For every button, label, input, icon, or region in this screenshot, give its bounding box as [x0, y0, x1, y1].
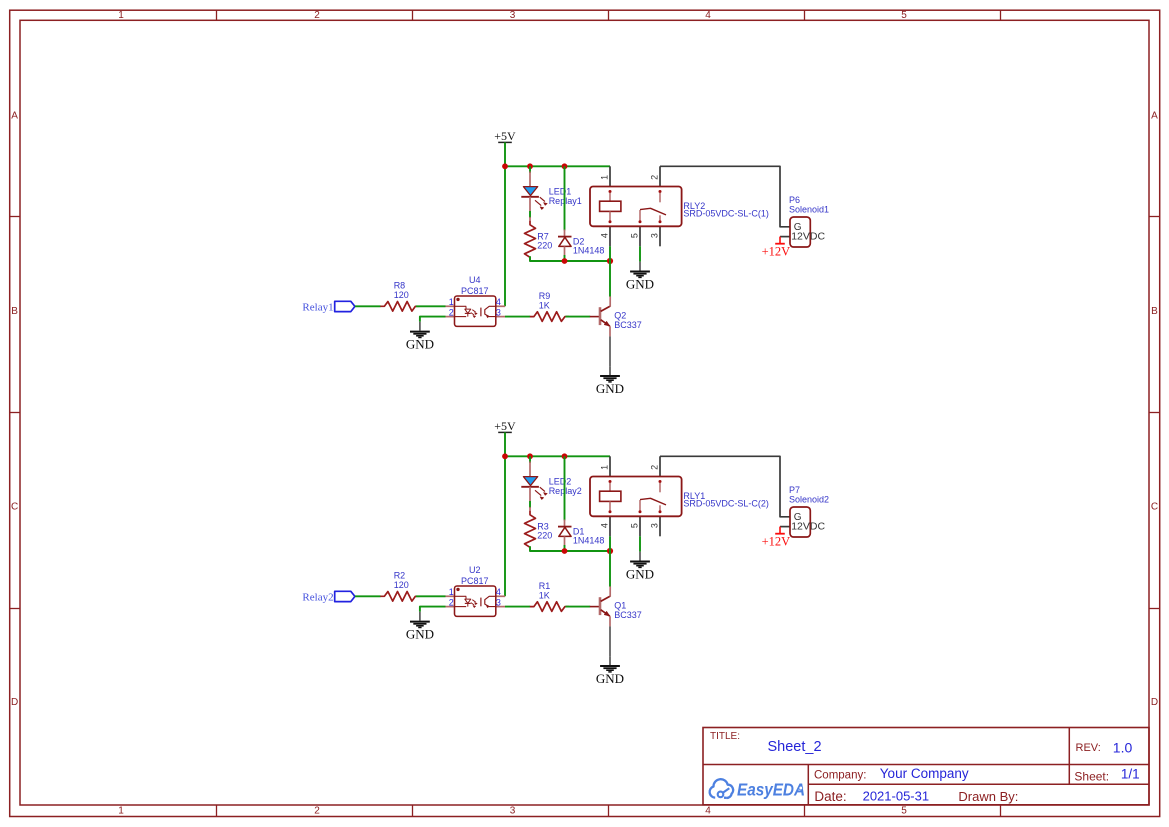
svg-text:1/1: 1/1 [1121, 766, 1140, 781]
optocoupler U2 PC817 [446, 595, 455, 597]
optocoupler internal led [455, 305, 467, 307]
svg-text:12VDC: 12VDC [791, 231, 825, 243]
easyeda logo cloud [710, 779, 733, 798]
svg-text:4: 4 [705, 806, 711, 817]
column ruler ticks bottom [216, 805, 218, 817]
wire optocoupler pin2 to ground [420, 317, 446, 322]
svg-text:1N4148: 1N4148 [573, 535, 605, 545]
svg-text:U4: U4 [469, 275, 481, 285]
svg-text:+5V: +5V [494, 419, 516, 433]
svg-text:1N4148: 1N4148 [573, 245, 605, 255]
svg-text:P7: P7 [789, 485, 800, 495]
svg-text:Relay2: Relay2 [302, 592, 333, 604]
wire diode anode to sub-rail [564, 255, 566, 261]
svg-text:SRD-05VDC-SL-C(1): SRD-05VDC-SL-C(1) [683, 209, 769, 219]
led LED1 [529, 172, 531, 187]
wire relay pin4 to sub-rail [609, 246, 611, 261]
connector P6 Solenoid1 [780, 236, 790, 238]
relay RLY2 body [590, 187, 682, 227]
svg-text:5: 5 [901, 806, 907, 817]
easyeda logo registered mark [799, 786, 803, 790]
svg-text:220: 220 [537, 241, 552, 251]
row ruler ticks left [10, 216, 20, 218]
svg-text:2: 2 [314, 10, 320, 21]
svg-text:1: 1 [449, 297, 454, 307]
svg-text:1K: 1K [539, 591, 550, 601]
ground under optocoupler pin2 [419, 612, 421, 621]
svg-text:220: 220 [537, 531, 552, 541]
wire LED cathode to resistor [529, 211, 531, 218]
svg-text:1: 1 [118, 10, 124, 21]
junction node on rail at x564 [562, 163, 568, 169]
svg-text:Date:: Date: [814, 789, 846, 804]
wire optocoupler pin3 to base resistor [505, 316, 530, 318]
svg-text:1K: 1K [539, 301, 550, 311]
optocoupler internal arrows [472, 600, 475, 602]
svg-text:4: 4 [600, 523, 610, 528]
wire optocoupler pin3 to base resistor [505, 606, 530, 608]
svg-text:B: B [1151, 306, 1158, 317]
svg-text:D: D [1151, 697, 1158, 708]
svg-text:1: 1 [449, 587, 454, 597]
ground under transistor emitter [609, 656, 611, 665]
junction node on rail at x530 [527, 453, 533, 459]
relay pin 5 wire [639, 516, 641, 536]
svg-text:+5V: +5V [494, 129, 516, 143]
relay contact [659, 190, 662, 193]
resistor R8 120 [380, 302, 419, 312]
svg-text:5: 5 [901, 10, 907, 21]
junction node sub-rail at collector [607, 258, 613, 264]
easyeda logo node circle [718, 792, 724, 798]
relay pin 5 wire [639, 226, 641, 246]
svg-text:GND: GND [596, 671, 624, 686]
svg-text:3: 3 [496, 307, 501, 317]
svg-text:BC337: BC337 [614, 610, 642, 620]
title block row divider 2 [808, 783, 1149, 785]
svg-text:Sheet:: Sheet: [1074, 769, 1109, 783]
wire optocoupler pin2 to ground [420, 607, 446, 612]
wire +5V rail [505, 165, 610, 167]
svg-text:5: 5 [630, 523, 640, 528]
wire sub-rail to transistor collector [609, 551, 611, 587]
relay contact [659, 480, 662, 483]
relay coil [609, 480, 612, 483]
power flag +12V [779, 237, 781, 244]
ground under optocoupler pin2 [419, 322, 421, 331]
wire +5V rail [505, 455, 610, 457]
ground under transistor emitter [609, 366, 611, 375]
svg-text:2021-05-31: 2021-05-31 [863, 788, 930, 803]
ground under relay pin5 [639, 552, 641, 561]
title block outline [703, 728, 1149, 805]
wire net flag to input resistor [355, 595, 381, 597]
svg-text:U2: U2 [469, 565, 481, 575]
svg-text:C: C [11, 502, 18, 513]
svg-text:3: 3 [496, 597, 501, 607]
svg-text:B: B [11, 306, 18, 317]
svg-text:A: A [1151, 111, 1158, 122]
svg-text:120: 120 [394, 290, 409, 300]
transistor Q2 BC337 [590, 316, 599, 318]
svg-text:2: 2 [650, 465, 660, 470]
wire diode anode to sub-rail [564, 545, 566, 551]
relay pin 3 wire [659, 516, 661, 536]
svg-text:GND: GND [406, 337, 434, 352]
wire base resistor to transistor [566, 316, 591, 318]
svg-text:2: 2 [314, 806, 320, 817]
junction node on rail at x505 [502, 453, 508, 459]
junction node on rail at x564 [562, 453, 568, 459]
transistor Q1 BC337 [590, 606, 599, 608]
relay RLY2 pin 1 wire [609, 166, 611, 186]
wire +5V stub [504, 142, 506, 166]
svg-text:3: 3 [510, 806, 516, 817]
svg-text:Your Company: Your Company [880, 766, 969, 781]
wire rail to diode cathode [564, 166, 566, 230]
svg-text:P6: P6 [789, 195, 800, 205]
diode D2 1N4148 [564, 230, 566, 237]
junction node sub-rail at collector [607, 548, 613, 554]
svg-text:2: 2 [650, 175, 660, 180]
svg-text:120: 120 [394, 580, 409, 590]
svg-text:Relay1: Relay1 [302, 302, 333, 314]
svg-text:1: 1 [600, 465, 610, 470]
power flag +12V [779, 527, 781, 534]
svg-text:TITLE:: TITLE: [710, 731, 740, 742]
svg-text:+12V: +12V [762, 244, 791, 258]
svg-text:SRD-05VDC-SL-C(2): SRD-05VDC-SL-C(2) [683, 499, 769, 509]
svg-text:GND: GND [626, 567, 654, 582]
relay pin 4 wire [609, 226, 611, 246]
easyeda logo node line [723, 788, 729, 792]
wire relay pin2 to solenoid connector [660, 166, 790, 227]
svg-text:R9: R9 [539, 291, 551, 301]
svg-text:PC817: PC817 [461, 286, 489, 296]
connector P7 Solenoid2 [780, 526, 790, 528]
junction node on rail at x530 [527, 163, 533, 169]
junction node sub-rail at diode [562, 548, 568, 554]
svg-text:5: 5 [630, 233, 640, 238]
svg-text:D: D [11, 697, 18, 708]
svg-text:GND: GND [626, 277, 654, 292]
svg-text:REV:: REV: [1076, 742, 1101, 754]
junction node sub-rail at diode [562, 258, 568, 264]
svg-text:Solenoid2: Solenoid2 [789, 495, 829, 505]
svg-text:BC337: BC337 [614, 320, 642, 330]
title block rev/sheet divider [1068, 728, 1070, 785]
svg-text:Company:: Company: [814, 770, 866, 782]
relay RLY1 body [590, 477, 682, 517]
wire rail to LED anode [529, 166, 531, 173]
svg-text:C: C [1151, 502, 1158, 513]
wire resistor bottom to sub-rail [530, 546, 610, 551]
svg-text:1: 1 [600, 175, 610, 180]
relay RLY1 pin 1 wire [609, 456, 611, 476]
svg-text:+12V: +12V [762, 534, 791, 548]
wire +5V stub [504, 432, 506, 456]
svg-text:R1: R1 [539, 581, 551, 591]
wire rail to diode cathode [564, 456, 566, 520]
wire relay pin5 to ground [639, 536, 641, 551]
wire base resistor to transistor [566, 606, 591, 608]
svg-text:4: 4 [600, 233, 610, 238]
wire relay pin2 to solenoid connector [660, 456, 790, 517]
svg-text:4: 4 [496, 297, 501, 307]
row ruler ticks right [1149, 216, 1160, 218]
optocoupler internal arrows [472, 310, 475, 312]
optocoupler internal led [455, 595, 467, 597]
svg-text:EasyEDA: EasyEDA [737, 780, 805, 800]
wire LED cathode to resistor [529, 501, 531, 508]
svg-text:GND: GND [596, 381, 624, 396]
column ruler ticks top [216, 10, 218, 20]
resistor R2 120 [380, 592, 419, 602]
relay pin 2 wire [659, 166, 661, 186]
relay coil [609, 190, 612, 193]
wire emitter to ground [609, 626, 611, 656]
svg-text:2: 2 [449, 597, 454, 607]
title block logo cell divider [807, 765, 809, 805]
wire input resistor to optocoupler pin1 [416, 595, 446, 597]
wire +5V vertical to optocoupler pin4 [504, 166, 506, 306]
svg-text:GND: GND [406, 627, 434, 642]
svg-text:2: 2 [449, 307, 454, 317]
svg-text:3: 3 [510, 10, 516, 21]
wire sub-rail to transistor collector [609, 261, 611, 297]
svg-text:4: 4 [496, 587, 501, 597]
relay pin 4 wire [609, 516, 611, 536]
wire relay pin5 to ground [639, 246, 641, 261]
svg-text:4: 4 [705, 10, 711, 21]
svg-text:Solenoid1: Solenoid1 [789, 205, 829, 215]
resistor R1 1K [530, 602, 569, 612]
title block row divider 1 [703, 764, 1149, 766]
relay pin 3 wire [659, 226, 661, 246]
junction node on rail at x505 [502, 163, 508, 169]
wire resistor bottom to sub-rail [530, 256, 610, 261]
optocoupler internal transistor [480, 598, 482, 607]
svg-text:12VDC: 12VDC [791, 521, 825, 533]
resistor R7 220 [529, 217, 531, 221]
wire input resistor to optocoupler pin1 [416, 305, 446, 307]
wire emitter to ground [609, 336, 611, 366]
svg-text:3: 3 [650, 523, 660, 528]
relay pin 2 wire [659, 456, 661, 476]
optocoupler U4 PC817 [446, 305, 455, 307]
svg-text:A: A [11, 111, 18, 122]
optocoupler internal transistor [480, 308, 482, 317]
wire +5V vertical to optocoupler pin4 [504, 456, 506, 596]
svg-text:3: 3 [650, 233, 660, 238]
wire rail to LED anode [529, 456, 531, 463]
svg-text:Sheet_2: Sheet_2 [768, 739, 822, 755]
resistor R3 220 [529, 507, 531, 511]
ground under relay pin5 [639, 262, 641, 271]
svg-text:PC817: PC817 [461, 576, 489, 586]
wire net flag to input resistor [355, 305, 381, 307]
diode D1 1N4148 [564, 520, 566, 527]
svg-text:Drawn By:: Drawn By: [958, 789, 1018, 804]
wire relay pin4 to sub-rail [609, 536, 611, 551]
led LED2 [529, 462, 531, 477]
resistor R9 1K [530, 312, 569, 322]
svg-text:1.0: 1.0 [1113, 739, 1133, 755]
svg-text:1: 1 [118, 806, 124, 817]
